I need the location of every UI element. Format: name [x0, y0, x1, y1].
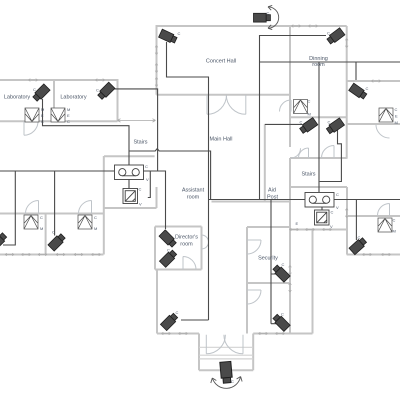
svg-text:Post: Post	[267, 195, 278, 201]
svg-text:C: C	[33, 87, 36, 92]
svg-text:M: M	[41, 107, 44, 112]
svg-text:M: M	[67, 107, 70, 112]
svg-text:V: V	[330, 224, 333, 229]
svg-text:Assistant: Assistant	[182, 188, 205, 194]
svg-text:Main Hall: Main Hall	[210, 137, 233, 143]
svg-text:C: C	[40, 215, 43, 220]
svg-text:E: E	[41, 113, 44, 118]
svg-text:C: C	[282, 262, 285, 267]
svg-text:C: C	[331, 210, 334, 215]
svg-text:E: E	[395, 114, 398, 119]
svg-text:room: room	[312, 62, 325, 68]
svg-text:Stairs: Stairs	[301, 172, 315, 178]
svg-text:C: C	[358, 235, 361, 240]
svg-text:M: M	[393, 229, 396, 234]
svg-text:Laboratory: Laboratory	[4, 95, 31, 101]
svg-text:C: C	[328, 120, 331, 125]
svg-text:C: C	[231, 379, 234, 384]
svg-text:C: C	[176, 310, 179, 315]
svg-text:V: V	[336, 205, 339, 210]
svg-text:C: C	[41, 119, 44, 124]
svg-text:room: room	[180, 242, 193, 248]
svg-text:C: C	[267, 11, 270, 16]
svg-text:C: C	[139, 187, 142, 192]
svg-text:C: C	[281, 312, 284, 317]
svg-text:M: M	[308, 111, 311, 116]
svg-text:C: C	[52, 230, 55, 235]
svg-text:C: C	[145, 164, 148, 169]
svg-text:E: E	[67, 113, 70, 118]
svg-text:C: C	[300, 120, 303, 125]
svg-text:M: M	[40, 226, 43, 231]
svg-text:C: C	[167, 248, 170, 253]
svg-text:V: V	[139, 202, 142, 207]
svg-text:C: C	[366, 86, 369, 91]
svg-text:room: room	[187, 195, 200, 201]
svg-text:Director's: Director's	[175, 235, 198, 241]
svg-text:Aid: Aid	[268, 188, 276, 194]
svg-text:Laboratory: Laboratory	[60, 95, 87, 101]
svg-text:Concert Hall: Concert Hall	[206, 59, 236, 65]
svg-text:C: C	[67, 119, 70, 124]
svg-text:Security: Security	[258, 256, 278, 262]
svg-text:Stairs: Stairs	[133, 140, 147, 146]
svg-text:C: C	[336, 192, 339, 197]
svg-text:C: C	[393, 218, 396, 223]
svg-text:C: C	[178, 31, 181, 36]
svg-text:C: C	[395, 107, 398, 112]
svg-text:C: C	[96, 88, 99, 93]
svg-text:C: C	[308, 99, 311, 104]
svg-text:C: C	[94, 215, 97, 220]
svg-text:V: V	[146, 177, 149, 182]
svg-text:E: E	[296, 221, 299, 226]
svg-text:M: M	[395, 120, 398, 125]
svg-text:M: M	[94, 226, 97, 231]
svg-text:C: C	[327, 31, 330, 36]
